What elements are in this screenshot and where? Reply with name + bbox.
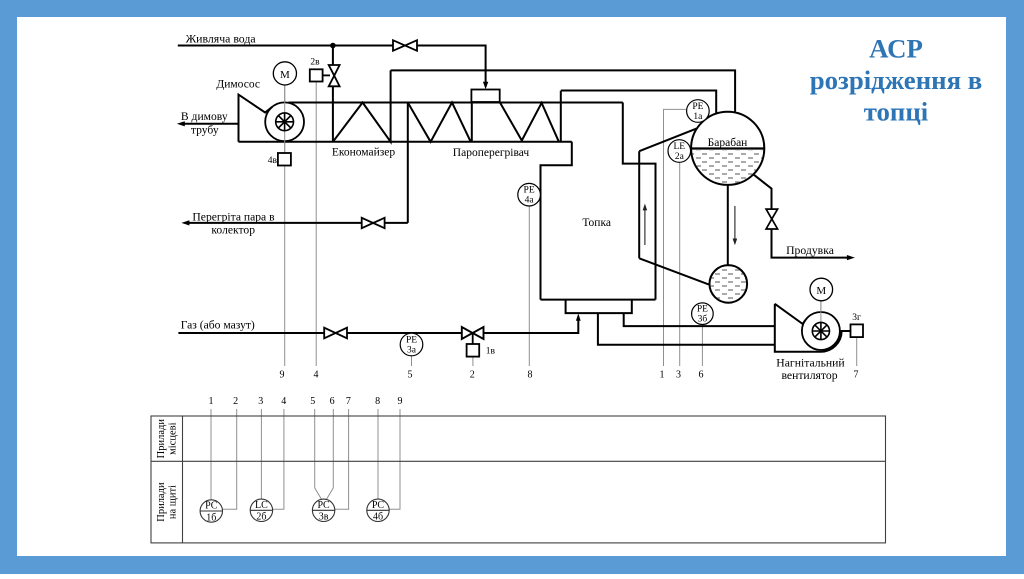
svg-text:2б: 2б: [256, 512, 266, 523]
riser arrow: [644, 207, 646, 245]
svg-text:PC: PC: [205, 501, 218, 512]
svg-text:М: М: [280, 69, 290, 81]
svg-text:3: 3: [676, 370, 681, 381]
pipe to attemperator: [485, 45, 487, 83]
svg-text:7: 7: [854, 370, 859, 381]
signal line 3 from LE 2а: [679, 162, 681, 366]
attemperator box: [471, 90, 499, 103]
svg-text:3в: 3в: [319, 512, 329, 523]
instrument PE 3а: [400, 333, 423, 356]
node numbers upper row: [280, 370, 859, 381]
svg-text:LC: LC: [255, 500, 268, 511]
svg-text:Перегріта пара в: Перегріта пара в: [192, 210, 275, 223]
box 4в: [278, 153, 291, 166]
svg-text:вентилятор: вентилятор: [781, 369, 837, 382]
svg-text:4: 4: [314, 370, 319, 381]
valve blowdown: [766, 209, 778, 229]
fan Димосос shaft: [284, 85, 286, 153]
svg-text:9: 9: [398, 396, 403, 407]
svg-text:2: 2: [233, 396, 238, 407]
signal line 5 from PE 3а: [411, 356, 413, 366]
lower drum: [710, 265, 748, 303]
svg-text:4а: 4а: [525, 196, 535, 206]
svg-text:В димову: В димову: [181, 110, 228, 123]
svg-text:Прилади: Прилади: [156, 482, 167, 522]
signal line 2 from valve 1в: [472, 357, 474, 366]
table wire 7: [335, 409, 349, 509]
svg-text:6: 6: [699, 370, 704, 381]
table wire 9: [389, 409, 400, 509]
svg-text:5: 5: [408, 370, 413, 381]
box 1в: [467, 344, 480, 357]
fan Нагнітальний housing: [775, 304, 851, 352]
signal line 8 from PE 4а: [528, 206, 530, 366]
svg-text:1б: 1б: [206, 512, 216, 523]
instrument LE 2а: [668, 140, 691, 163]
economizer coil: [333, 70, 391, 141]
air duct lower: [598, 313, 775, 345]
svg-text:Димосос: Димосос: [216, 79, 260, 91]
instrument PC 1б: [200, 500, 222, 524]
table wire 2: [223, 409, 237, 509]
signal line 6 from PE 3б: [701, 324, 703, 366]
svg-text:Продувка: Продувка: [786, 244, 835, 257]
svg-text:місцеві: місцеві: [168, 422, 179, 454]
table wire 6: [326, 409, 333, 500]
svg-text:1а: 1а: [693, 112, 703, 122]
instrument PE 3б: [692, 303, 714, 325]
svg-text:3б: 3б: [698, 314, 708, 325]
instrument LC 2б: [250, 499, 272, 523]
svg-text:Барабан: Барабан: [708, 137, 748, 149]
svg-text:Пароперегрівач: Пароперегрівач: [453, 147, 530, 159]
svg-text:5: 5: [310, 396, 315, 407]
signal line 1 from PE 1а: [664, 109, 687, 366]
table label Прилади місцеві: [156, 419, 179, 459]
node feed branch: [330, 43, 336, 49]
table wire 4: [273, 409, 284, 509]
svg-text:PE: PE: [406, 335, 417, 345]
svg-text:PC: PC: [372, 500, 385, 511]
furnace bottom: [541, 299, 656, 301]
pipe economizer to drum: [391, 70, 735, 111]
motor shaft fan 2: [820, 301, 822, 331]
svg-text:розрідження в: розрідження в: [810, 65, 983, 95]
svg-text:Топка: Топка: [582, 217, 611, 229]
pipe drum steam line: [561, 91, 716, 114]
valve feed water: [393, 40, 417, 51]
svg-text:LE: LE: [673, 142, 685, 152]
table frame: [151, 416, 886, 543]
instrument PE 1а: [687, 100, 710, 123]
svg-text:PE: PE: [697, 305, 708, 315]
svg-text:4б: 4б: [373, 512, 383, 523]
svg-text:Прилади: Прилади: [156, 419, 167, 459]
svg-text:4: 4: [281, 396, 286, 407]
fan Димосос scroll: [265, 102, 304, 141]
flue duct top wall: [289, 102, 623, 104]
furnace right wall: [623, 103, 656, 300]
signal line 7 from box 3г: [856, 337, 858, 366]
fan Димосос housing: [239, 95, 273, 142]
svg-text:1в: 1в: [486, 347, 496, 357]
motor M2: [810, 278, 833, 301]
svg-text:Нагнітальний: Нагнітальний: [776, 357, 844, 370]
signal line 4 from valve 2в: [315, 82, 317, 367]
instrument PC 3в: [312, 499, 334, 523]
superheater coil left: [408, 102, 472, 142]
fan Нагнітальний shaft: [820, 301, 822, 331]
fan Димосос impeller: [276, 113, 294, 131]
svg-text:1: 1: [660, 370, 665, 381]
instrument PC 4б: [367, 499, 389, 523]
instrument PE 4а: [518, 183, 541, 206]
svg-text:2а: 2а: [675, 152, 685, 162]
superheater coil right: [500, 91, 561, 142]
pipe to chimney: [182, 123, 239, 125]
valve steam: [362, 218, 385, 228]
box 2в: [310, 69, 323, 81]
svg-text:на щиті: на щиті: [168, 485, 179, 519]
pipe branch to valve 2в: [332, 46, 334, 142]
svg-text:колектор: колектор: [211, 224, 255, 237]
table wire 3: [260, 409, 262, 499]
svg-text:2: 2: [470, 370, 475, 381]
svg-text:4в: 4в: [268, 156, 278, 166]
svg-text:М: М: [816, 285, 826, 297]
table wire 1: [210, 409, 212, 500]
svg-text:2в: 2в: [310, 58, 320, 68]
svg-text:1: 1: [209, 396, 214, 407]
svg-text:трубу: трубу: [191, 123, 219, 136]
svg-text:PE: PE: [524, 186, 535, 196]
table wire 8: [377, 409, 379, 499]
downcomer slant to lower drum: [639, 258, 710, 285]
svg-text:АСР: АСР: [869, 34, 923, 64]
pipe feed water: [178, 45, 486, 47]
table wire 5: [315, 409, 322, 500]
svg-text:Економайзер: Економайзер: [332, 147, 396, 159]
svg-text:7: 7: [346, 396, 351, 407]
svg-text:3г: 3г: [852, 313, 861, 323]
valve 1в stem: [472, 333, 474, 344]
fan Нагнітальний scroll: [802, 312, 840, 350]
svg-text:8: 8: [375, 396, 380, 407]
valve gas 2: [462, 327, 484, 339]
drum water line: [691, 147, 764, 149]
svg-text:PE: PE: [692, 102, 703, 112]
svg-text:3а: 3а: [407, 345, 417, 355]
pipe downcomer: [727, 185, 729, 265]
svg-text:PC: PC: [317, 500, 330, 511]
riser panel left edge: [638, 151, 640, 258]
riser slant to drum: [639, 129, 696, 152]
valve gas 1: [324, 328, 347, 339]
table label Прилади на щиті: [156, 482, 179, 522]
pipe blowdown: [754, 175, 850, 258]
air duct upper: [624, 313, 775, 326]
drum Барабан: [691, 112, 764, 185]
svg-text:8: 8: [528, 370, 533, 381]
valve 2в actuator link: [323, 74, 330, 76]
pipe superheated steam out: [186, 103, 408, 223]
svg-text:топці: топці: [864, 97, 929, 127]
arrow into attemperator: [483, 82, 488, 90]
svg-text:9: 9: [280, 370, 285, 381]
node numbers table row: [209, 396, 403, 407]
burner box: [566, 300, 632, 314]
svg-text:Живляча вода: Живляча вода: [186, 31, 257, 45]
valve 2в: [329, 65, 340, 86]
arrow steam to collector: [181, 220, 189, 225]
motor M1: [273, 62, 296, 85]
fan Нагнітальний impeller: [812, 322, 829, 339]
arrow Продувка: [847, 255, 855, 260]
title: [810, 34, 983, 127]
furnace left wall: [541, 142, 572, 300]
signal line 9 from valve 4в: [284, 85, 286, 366]
svg-text:Газ (або мазут): Газ (або мазут): [181, 319, 255, 332]
arrow to chimney: [177, 121, 185, 126]
downcomer arrow: [734, 206, 736, 242]
flue duct bottom wall: [239, 141, 572, 143]
pipe gas line: [178, 319, 578, 334]
svg-text:6: 6: [330, 396, 335, 407]
box 3г: [851, 324, 864, 337]
svg-text:3: 3: [258, 396, 263, 407]
arrow gas to burner: [576, 314, 581, 321]
